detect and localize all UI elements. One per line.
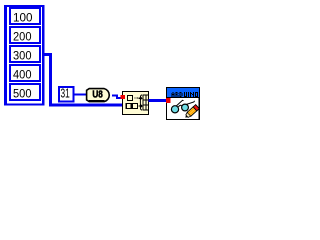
- array element 500: [9, 83, 41, 101]
- build array node: [123, 92, 149, 115]
- coercion dot (red) at arduino VI input: [166, 98, 171, 103]
- svg-text:300: 300: [13, 48, 32, 62]
- glasses left temple: [177, 100, 184, 106]
- wire U8 to build array (with jog): [112, 96, 122, 99]
- output array grid: [143, 95, 149, 110]
- glasses right temple: [187, 101, 195, 105]
- array element 300: [9, 45, 41, 63]
- svg-text:31: 31: [61, 86, 70, 100]
- glasses bridge: [178, 105, 182, 107]
- array element 400: [9, 64, 41, 82]
- numeric constant 31: [58, 86, 75, 103]
- array wire (thick) from array constant to build array node: [44, 55, 123, 106]
- U8 conversion node: [87, 89, 110, 102]
- arduino subVI icon frame: [167, 88, 200, 120]
- array element 200: [9, 26, 41, 44]
- arduino banner: [167, 88, 200, 98]
- svg-text:U8: U8: [92, 90, 103, 101]
- pencil: [183, 105, 199, 120]
- array constant outer frame: [4, 5, 45, 106]
- array input squares bottom: [126, 104, 131, 109]
- arrow top: [138, 95, 142, 100]
- arrow bottom: [138, 103, 142, 108]
- glasses right lens: [182, 104, 189, 111]
- array element 100: [9, 7, 41, 25]
- svg-text:400: 400: [13, 67, 32, 81]
- svg-text:200: 200: [13, 29, 32, 43]
- glasses left lens: [171, 106, 178, 113]
- element input square top: [128, 96, 133, 101]
- coercion dot (red) at build array top input: [121, 95, 125, 99]
- wire 31 to U8: [75, 94, 88, 96]
- svg-text:500: 500: [13, 86, 32, 100]
- bracket: [140, 95, 142, 110]
- output array wire (thick) build array to arduino VI: [149, 99, 167, 102]
- dots: [134, 97, 135, 98]
- svg-text:100: 100: [13, 10, 33, 24]
